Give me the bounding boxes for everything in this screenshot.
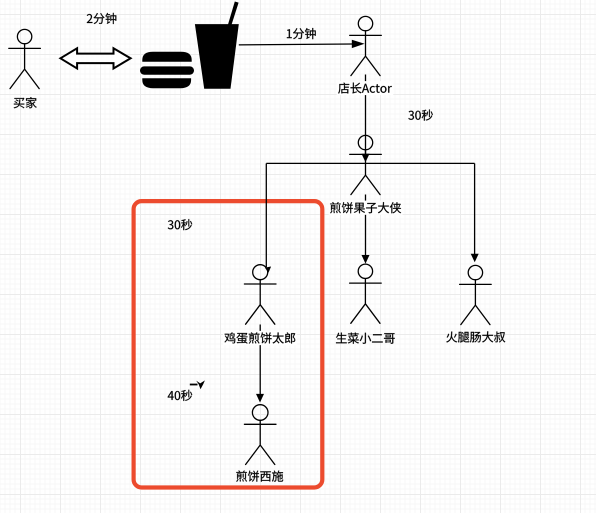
label 火腿肠大叔: [446, 331, 505, 342]
label 买家: [14, 97, 37, 108]
label 店长Actor: [337, 81, 394, 95]
label 煎饼西施: [236, 471, 283, 482]
connector 40秒: 鸡蛋煎饼太郎 to 煎饼西施: [256, 325, 264, 403]
actor 火腿肠大叔: [460, 265, 492, 324]
actor 鸡蛋煎饼太郎: [244, 265, 276, 325]
label 鸡蛋煎饼太郎: [223, 331, 297, 345]
label 生菜小二哥: [336, 333, 395, 344]
label 40秒: [168, 390, 193, 401]
actor 店长Actor: [350, 16, 382, 75]
double arrow 买家-food: [60, 48, 130, 68]
label 2分钟: [87, 13, 117, 24]
red group box: [134, 201, 323, 487]
label 30秒 (店长): [408, 110, 432, 121]
label 煎饼果子大侠: [329, 201, 403, 215]
actor 煎饼西施: [244, 405, 276, 465]
label 30秒 (group): [168, 219, 192, 230]
connector 1分钟: drink to 店长Actor: [239, 40, 365, 48]
actor 买家: [9, 29, 41, 88]
label 1分钟: [287, 28, 316, 39]
connector 30秒: 店长Actor to 煎饼果子大侠: [362, 75, 370, 163]
connector branch: 煎饼果子大侠 to three helpers: [265, 163, 479, 273]
actor 生菜小二哥: [350, 264, 382, 323]
annotation arrow 40秒: [190, 380, 205, 389]
hamburger icon: [140, 52, 194, 88]
drink cup icon: [195, 2, 239, 89]
actor 煎饼果子大侠: [350, 135, 382, 194]
